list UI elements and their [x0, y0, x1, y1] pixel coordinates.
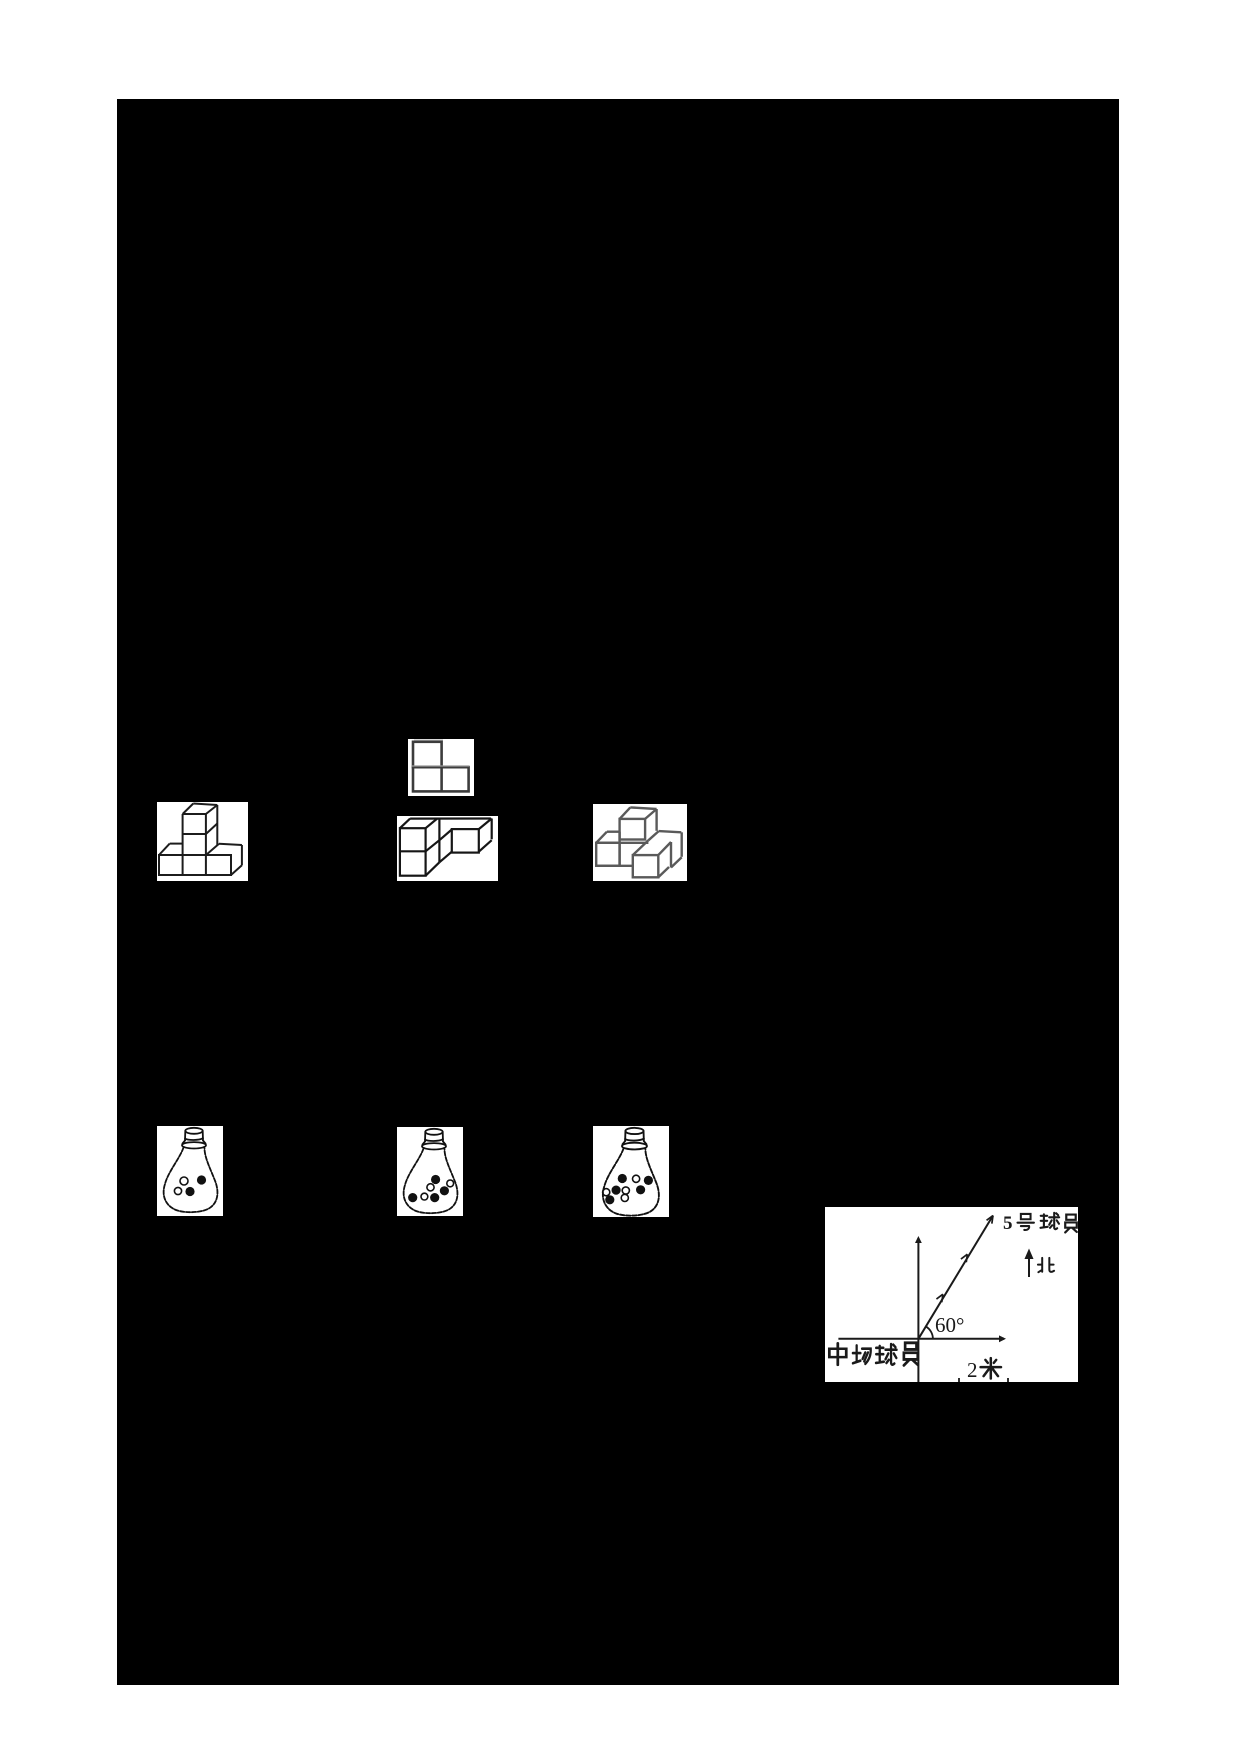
svg-text:5: 5 — [1003, 1213, 1013, 1234]
svg-text:60°: 60° — [935, 1313, 964, 1337]
svg-text:2: 2 — [967, 1358, 978, 1382]
